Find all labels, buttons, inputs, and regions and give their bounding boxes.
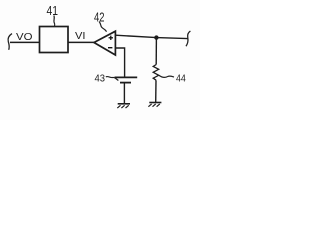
svg-text:43: 43 <box>95 72 106 84</box>
svg-text:41: 41 <box>47 4 59 18</box>
svg-text:VI: VI <box>75 31 86 42</box>
svg-text:VO: VO <box>16 31 33 43</box>
svg-text:44: 44 <box>176 73 186 85</box>
